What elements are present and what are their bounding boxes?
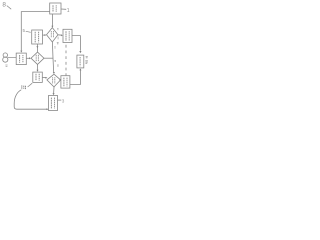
arrowhead into D3 left <box>46 77 48 79</box>
tiny label on down wire <box>54 47 56 48</box>
wire D1 right to B3 <box>58 34 62 36</box>
tiny label 16 at loop start <box>22 85 26 89</box>
box B7 (row4 right) <box>61 76 70 88</box>
arrowhead up into B6 bottom <box>79 68 81 70</box>
label 8 (figure reference, top-left) <box>2 2 6 9</box>
off-page wire into B8 left (bottom-left loop) <box>14 90 47 109</box>
wire D3 bottom to B8 top <box>53 87 55 94</box>
text in B7 <box>63 78 65 87</box>
wire B7 right loop up into B6 bottom <box>70 70 80 85</box>
arrowhead into B8 top <box>53 93 55 95</box>
tiny label right of D1 entry <box>57 29 59 30</box>
diamond D1 <box>47 28 59 42</box>
wire B1 bottom to D1 top <box>51 14 53 26</box>
leader from B4 corner to label <box>28 83 33 87</box>
connector oval to B5 <box>8 57 17 59</box>
text in D2 <box>36 55 38 62</box>
wire D2 bottom to B4 top <box>37 64 39 70</box>
text in B8 <box>50 98 52 109</box>
text in B2 <box>34 32 36 43</box>
text in D1 <box>51 31 53 38</box>
diamond D3 <box>47 74 61 87</box>
leader from label 5 to B2 corner <box>26 31 31 32</box>
text in D3 <box>53 77 55 83</box>
text in B4 <box>35 74 37 81</box>
wire B3 right to B6 top <box>72 36 80 51</box>
leader from label 8 <box>7 6 11 10</box>
dashed wire B3 bottom to B7 top <box>65 45 67 76</box>
arrowhead into D1 left <box>45 34 47 36</box>
wire D1 bottom down to D3 top (through junction) <box>52 42 53 73</box>
wire B1 left feedback down to B5 <box>21 12 49 51</box>
svg-text:1: 1 <box>67 8 70 14</box>
box B3 (row2 right) <box>63 29 72 42</box>
box B8 (bottom box) <box>49 96 58 111</box>
svg-text:8: 8 <box>2 2 6 9</box>
tiny label below oval <box>5 65 7 66</box>
arrowhead into D3 top <box>53 72 55 74</box>
tiny label Y right of D1 bottom <box>57 42 59 43</box>
arrowhead into B6 top <box>79 51 81 53</box>
box B2 (row2 left) <box>32 30 43 44</box>
wire B4 to D3 <box>42 77 46 79</box>
box B5 (row3 left) <box>16 53 26 65</box>
oval terminal left of B5 (8-shaped) <box>3 53 7 57</box>
svg-text:5: 5 <box>23 28 26 33</box>
box B4 (row4 left) <box>33 72 43 82</box>
wire B2 bottom to D2 top <box>36 44 38 52</box>
tiny label right of D1 <box>57 37 59 40</box>
diamond D2 <box>31 52 44 64</box>
arrowhead into D1 top <box>51 26 53 28</box>
arrowhead into B3 left <box>61 34 63 36</box>
wire D2 right to junction <box>44 57 53 59</box>
arrowhead below B2 <box>36 46 38 48</box>
wire B5 to D2 <box>26 57 30 59</box>
arrowhead into D2 left <box>29 57 31 59</box>
wire B2 to D1 <box>43 34 46 36</box>
tiny label above D3 <box>57 65 59 66</box>
tiny label near junction <box>54 60 56 61</box>
label right of B6 (lower) <box>85 61 88 64</box>
text in B1 <box>52 5 54 12</box>
label right of B6 (upper) <box>86 56 88 57</box>
text in B5 <box>19 55 21 63</box>
leader to label 1 <box>61 8 66 10</box>
arrowhead into B4 top <box>37 70 39 72</box>
arrowhead D3 right into B7 left <box>60 79 62 81</box>
leader B8 to label 3 <box>58 99 62 101</box>
arrowhead into B8 left <box>47 108 49 110</box>
arrowhead into B5 top <box>20 51 22 53</box>
box B1 (top process box) <box>50 3 61 14</box>
box B6 (right tall box) <box>77 55 84 68</box>
svg-text:3: 3 <box>62 98 65 103</box>
text in B3 <box>65 31 67 41</box>
text in B6 <box>79 57 81 66</box>
